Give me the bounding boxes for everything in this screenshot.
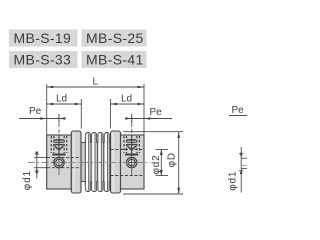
svg-text:Pe: Pe	[29, 106, 42, 117]
right hub body	[121, 135, 145, 189]
horizontal center line	[28, 162, 150, 164]
bellows crest 4	[104, 133, 110, 192]
left screw hole bottom	[53, 154, 66, 156]
right flange	[111, 131, 121, 193]
label box MB-S-41	[82, 51, 147, 68]
left hub body	[47, 135, 72, 189]
second drawing phi d1 dimension	[239, 147, 247, 193]
bellows crest 1	[85, 133, 90, 192]
svg-text:φD: φD	[167, 152, 178, 167]
dimension phi d2	[156, 150, 169, 176]
right screw center line	[131, 114, 133, 175]
svg-text:L: L	[93, 77, 99, 88]
dimension Ld right	[110, 99, 144, 129]
dimension Pe right	[125, 115, 172, 123]
label box MB-S-33	[9, 51, 78, 68]
right front screw circle	[124, 157, 139, 167]
left screw center line	[58, 114, 60, 175]
right set screw body	[127, 139, 136, 150]
dimension phi D	[123, 132, 183, 194]
dimension L	[47, 84, 144, 135]
svg-text:φd2: φd2	[151, 154, 162, 174]
right set screw hole walls	[124, 136, 139, 153]
svg-text:MB-S-41: MB-S-41	[86, 51, 144, 67]
svg-text:Ld: Ld	[56, 94, 67, 105]
svg-text:φd1: φd1	[22, 170, 33, 190]
left set screw hole walls	[51, 136, 66, 153]
left flange	[71, 131, 81, 193]
dimension phi d1 left	[34, 151, 47, 178]
svg-text:MB-S-19: MB-S-19	[14, 30, 72, 46]
svg-text:φd1: φd1	[228, 171, 239, 191]
bellows web (valley band)	[81, 143, 111, 182]
svg-text:Pe: Pe	[150, 107, 163, 118]
second drawing Pe label	[229, 105, 247, 116]
svg-text:Pe: Pe	[232, 105, 245, 116]
svg-text:Ld: Ld	[121, 94, 132, 105]
label box MB-S-19	[9, 30, 78, 47]
bore d1 hidden lines	[47, 157, 81, 167]
bore d2 hidden lines	[111, 150, 145, 176]
svg-text:MB-S-25: MB-S-25	[86, 30, 144, 46]
left front screw circle	[52, 157, 67, 167]
svg-text:MB-S-33: MB-S-33	[14, 51, 72, 67]
bellows crest 2	[91, 133, 97, 192]
dimension Ld left	[47, 99, 82, 129]
label box MB-S-25	[82, 30, 147, 47]
dimension Pe left	[19, 115, 66, 123]
right screw hole bottom	[125, 154, 138, 156]
left set screw body	[54, 139, 63, 150]
bellows crest 3	[97, 133, 103, 192]
